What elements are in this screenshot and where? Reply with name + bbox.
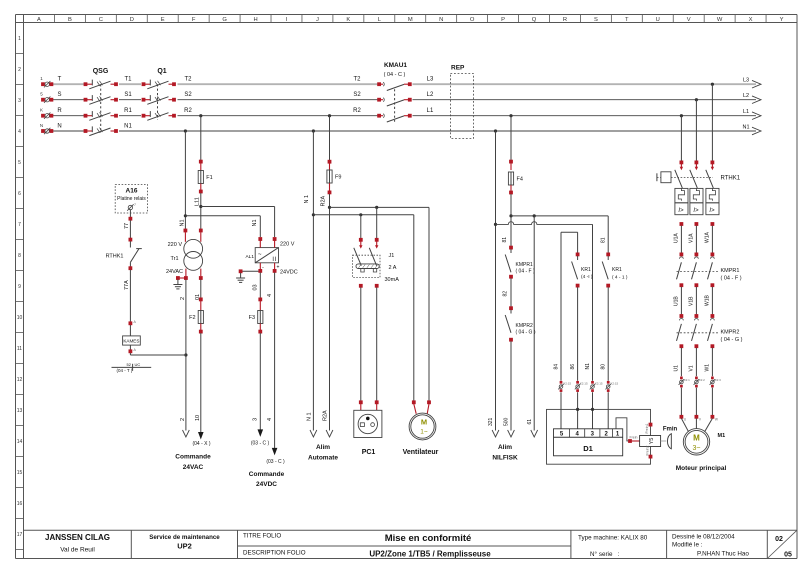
svg-text:DESCRIPTION FOLIO: DESCRIPTION FOLIO: [243, 550, 306, 557]
svg-text:Commande: Commande: [175, 454, 211, 461]
svg-text:V: V: [687, 17, 691, 23]
svg-text:W1B: W1B: [704, 295, 710, 307]
svg-text:NILFISK: NILFISK: [492, 455, 518, 462]
svg-text:84: 84: [553, 364, 559, 370]
svg-text:13: 13: [17, 408, 23, 414]
svg-text:UP2/Zone 1/TB5 / Remplisseuse: UP2/Zone 1/TB5 / Remplisseuse: [369, 550, 491, 559]
svg-text:UC: UC: [135, 362, 141, 367]
svg-text:7: 7: [18, 222, 21, 228]
svg-text:R: R: [563, 17, 567, 23]
svg-text:81: 81: [502, 237, 508, 243]
svg-text:4: 4: [267, 294, 273, 297]
svg-text:82: 82: [502, 291, 508, 297]
svg-text:2: 2: [18, 67, 21, 73]
svg-text:2 A: 2 A: [389, 265, 397, 271]
svg-text:D1: D1: [583, 444, 593, 453]
svg-text:N: N: [439, 17, 443, 23]
svg-text:77: 77: [124, 223, 130, 229]
svg-text:321: 321: [488, 417, 494, 426]
svg-text:03: 03: [252, 284, 258, 290]
svg-text:E: E: [161, 17, 165, 23]
svg-text:L3: L3: [427, 77, 434, 83]
svg-text:B: B: [68, 17, 72, 23]
svg-text:AL1: AL1: [245, 254, 254, 260]
svg-text:KMPR1: KMPR1: [516, 262, 533, 268]
svg-text:Y: Y: [780, 17, 784, 23]
svg-text:2: 2: [180, 418, 186, 421]
svg-text:T1: T1: [124, 77, 132, 83]
svg-text:KR1: KR1: [581, 267, 591, 273]
svg-text:1: 1: [18, 36, 21, 42]
svg-text:N: N: [40, 123, 43, 128]
svg-text:3: 3: [18, 98, 21, 104]
svg-text:4: 4: [267, 418, 273, 421]
svg-text:24VDC: 24VDC: [256, 481, 277, 488]
svg-text:R2A: R2A: [322, 410, 328, 421]
svg-text:N° serie :: N° serie :: [590, 550, 620, 558]
svg-text:S: S: [594, 17, 598, 23]
svg-text:T2: T2: [353, 77, 361, 83]
svg-text:K: K: [346, 17, 350, 23]
svg-text:F1: F1: [206, 175, 212, 181]
svg-text:X2:15: X2:15: [580, 381, 588, 385]
svg-text:24VDC: 24VDC: [280, 270, 298, 276]
svg-text:M: M: [421, 418, 427, 427]
svg-text:RTHK1: RTHK1: [721, 176, 741, 182]
svg-text:V1B: V1B: [688, 296, 694, 306]
svg-text:( 04 - G ): ( 04 - G ): [516, 330, 536, 336]
svg-text:W1A: W1A: [704, 232, 710, 244]
svg-text:16: 16: [17, 501, 23, 507]
svg-text:5: 5: [18, 160, 21, 166]
svg-text:G: G: [222, 17, 227, 23]
svg-text:Moteur principal: Moteur principal: [676, 465, 727, 472]
svg-text:15: 15: [17, 470, 23, 476]
svg-text:Automate: Automate: [308, 455, 338, 462]
svg-text:86: 86: [570, 364, 576, 370]
svg-text:D: D: [130, 17, 134, 23]
svg-text:Service de maintenance: Service de maintenance: [149, 534, 220, 541]
svg-text:PC1: PC1: [362, 449, 376, 456]
svg-text:7: 7: [134, 203, 136, 207]
svg-text:N1: N1: [179, 219, 185, 226]
svg-text:Type machine: KALIX 80: Type machine: KALIX 80: [578, 535, 648, 542]
svg-text:I>: I>: [693, 208, 699, 214]
svg-text:F: F: [192, 17, 196, 23]
svg-text:W: W: [717, 17, 723, 23]
svg-text:TITRE FOLIO: TITRE FOLIO: [243, 533, 281, 540]
svg-text:L2: L2: [743, 93, 749, 99]
svg-text:REP: REP: [451, 65, 465, 72]
svg-text:K: K: [40, 108, 43, 113]
svg-text:02: 02: [775, 536, 783, 543]
svg-text:X: X: [749, 17, 753, 23]
svg-text:S2: S2: [353, 92, 361, 98]
svg-text:N 1: N 1: [304, 195, 310, 204]
svg-text:I>: I>: [709, 208, 715, 214]
svg-text:X2:15: X2:15: [595, 381, 603, 385]
svg-text:P: P: [501, 17, 505, 23]
svg-text:RTHK1: RTHK1: [106, 254, 124, 260]
svg-text:F2: F2: [189, 315, 195, 321]
svg-text:9: 9: [18, 284, 21, 290]
svg-text:M1: M1: [718, 433, 726, 439]
svg-text:R2: R2: [184, 108, 192, 114]
svg-text:R2A: R2A: [321, 195, 327, 206]
svg-text:(03 - C ): (03 - C ): [266, 459, 285, 465]
svg-text:N1: N1: [585, 363, 591, 370]
svg-text:Ventilateur: Ventilateur: [403, 449, 439, 456]
svg-text:X2:15: X2:15: [610, 381, 618, 385]
svg-text:N1: N1: [742, 125, 749, 131]
svg-text:~: ~: [258, 252, 262, 258]
svg-text:A16: A16: [126, 188, 138, 195]
svg-text:M: M: [408, 17, 413, 23]
svg-text:6: 6: [18, 191, 21, 197]
svg-text:80: 80: [601, 364, 607, 370]
svg-text:(03 - C ): (03 - C ): [251, 441, 270, 447]
svg-text:L1: L1: [427, 108, 434, 114]
svg-text:220 V: 220 V: [280, 242, 295, 248]
svg-text:( 04 - G ): ( 04 - G ): [721, 337, 743, 343]
svg-text:Frein1: Frein1: [645, 424, 649, 434]
svg-text:W1: W1: [704, 364, 710, 372]
svg-text:X2:15: X2:15: [563, 381, 571, 385]
svg-text:L2: L2: [427, 92, 434, 98]
svg-text:L1: L1: [743, 109, 749, 115]
svg-text:Mise en conformité: Mise en conformité: [385, 533, 472, 544]
svg-text:R2: R2: [353, 108, 361, 114]
svg-text:V1: V1: [688, 365, 694, 371]
svg-text:S: S: [57, 92, 61, 98]
svg-text:P.NHAN Thuc Hao: P.NHAN Thuc Hao: [697, 551, 749, 558]
svg-text:T: T: [625, 17, 629, 23]
svg-text:Frein: Frein: [630, 436, 638, 440]
svg-text:500: 500: [504, 417, 510, 426]
svg-text:3: 3: [253, 418, 259, 421]
svg-text:01: 01: [195, 294, 201, 300]
svg-text:R1: R1: [124, 108, 132, 114]
svg-text:3~: 3~: [693, 445, 701, 452]
svg-text:( 04 - C ): ( 04 - C ): [384, 72, 406, 78]
svg-text:UP2: UP2: [177, 542, 192, 551]
svg-text:24VAC: 24VAC: [166, 269, 183, 275]
svg-text:W: W: [715, 417, 718, 421]
svg-text:Val de Reuil: Val de Reuil: [60, 547, 95, 554]
svg-text:I>: I>: [678, 208, 684, 214]
svg-text:KMAU1: KMAU1: [384, 62, 407, 69]
svg-text:T: T: [58, 77, 62, 83]
svg-text:Dessiné le 08/12/2004: Dessiné le 08/12/2004: [672, 534, 735, 541]
svg-text:14: 14: [17, 439, 23, 445]
svg-text:24VAC: 24VAC: [183, 464, 204, 471]
svg-text:77A: 77A: [124, 280, 130, 290]
svg-text:X2:2: X2:2: [699, 378, 706, 382]
svg-text:L3: L3: [743, 78, 749, 84]
svg-text:F3: F3: [249, 315, 255, 321]
svg-text:N1: N1: [124, 124, 132, 130]
svg-text:Frein2: Frein2: [645, 446, 649, 456]
svg-text:(04 - X ): (04 - X ): [192, 441, 210, 447]
svg-text:( 04 - F ): ( 04 - F ): [721, 276, 742, 282]
svg-text:(4 -I ): (4 -I ): [581, 274, 593, 280]
svg-text:KR1: KR1: [612, 267, 622, 273]
svg-text:S2: S2: [184, 92, 192, 98]
svg-text:Q1: Q1: [157, 68, 166, 75]
svg-text:J1: J1: [389, 253, 395, 259]
svg-text:T2: T2: [184, 77, 192, 83]
svg-text:2: 2: [180, 297, 186, 300]
svg-text:11: 11: [17, 346, 22, 352]
svg-text:V1A: V1A: [688, 233, 694, 243]
svg-text:Modifié le :: Modifié le :: [672, 542, 703, 549]
svg-text:KMPR1: KMPR1: [721, 268, 740, 274]
svg-text:Commande: Commande: [249, 471, 285, 478]
svg-text:H: H: [253, 17, 257, 23]
svg-text:X2:3: X2:3: [715, 378, 722, 382]
svg-text:KMPR2: KMPR2: [516, 323, 533, 329]
svg-text:Alim: Alim: [316, 444, 330, 451]
svg-text:M: M: [693, 434, 700, 443]
svg-text:U1B: U1B: [673, 296, 679, 306]
svg-text:10: 10: [195, 415, 201, 421]
svg-text:Q: Q: [532, 17, 537, 23]
svg-text:10: 10: [17, 315, 23, 321]
svg-text:U1A: U1A: [673, 233, 679, 243]
svg-text:KAMES: KAMES: [123, 339, 139, 344]
svg-text:Alim: Alim: [498, 444, 512, 451]
svg-text:Platine relais: Platine relais: [117, 196, 146, 202]
svg-text:N 1: N 1: [306, 412, 312, 421]
svg-text:81: 81: [601, 237, 607, 243]
svg-text:4: 4: [18, 129, 21, 135]
svg-text:R: R: [57, 108, 62, 114]
svg-text:J: J: [316, 17, 319, 23]
svg-text:F4: F4: [517, 177, 523, 183]
svg-text:52: 52: [127, 362, 132, 367]
svg-text:( 04 - F ): ( 04 - F ): [516, 269, 536, 275]
svg-text:F9: F9: [335, 175, 341, 181]
svg-text:220 V: 220 V: [168, 242, 183, 248]
svg-text:U: U: [656, 17, 660, 23]
svg-text:N: N: [57, 124, 61, 130]
svg-text:Y5: Y5: [649, 438, 655, 445]
svg-text:17: 17: [17, 532, 23, 538]
svg-text:61: 61: [527, 419, 533, 425]
svg-text:QSG: QSG: [93, 68, 109, 75]
svg-text:N1: N1: [252, 219, 258, 226]
svg-text:Tr1: Tr1: [170, 256, 178, 262]
svg-text:1~: 1~: [420, 429, 428, 436]
svg-text:KMPR2: KMPR2: [721, 330, 740, 336]
svg-text:(04 - T ): (04 - T ): [117, 368, 133, 373]
svg-text:S1: S1: [124, 92, 132, 98]
svg-text:12: 12: [17, 377, 23, 383]
svg-text:X2:1: X2:1: [684, 378, 691, 382]
svg-text:Fmin: Fmin: [663, 427, 678, 433]
svg-text:L11: L11: [195, 197, 201, 206]
svg-text:8: 8: [18, 253, 21, 259]
svg-text:30mA: 30mA: [385, 277, 400, 283]
svg-text:O: O: [470, 17, 475, 23]
svg-text:JANSSEN CILAG: JANSSEN CILAG: [45, 533, 110, 542]
svg-text:( 4 - 1 ): ( 4 - 1 ): [612, 275, 628, 281]
svg-text:C: C: [99, 17, 103, 23]
svg-text:U1: U1: [673, 365, 679, 372]
svg-text:A: A: [37, 17, 41, 23]
svg-text:05: 05: [784, 552, 792, 559]
